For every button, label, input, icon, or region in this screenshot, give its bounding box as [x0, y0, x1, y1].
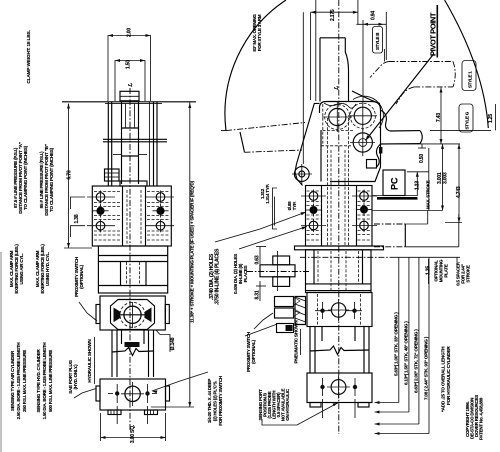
- dim 7.43: [440, 88, 442, 145]
- svg-text:(OPTIONAL): (OPTIONAL): [251, 339, 256, 363]
- 1.13 dim: [407, 171, 429, 173]
- svg-text:MAX. STROKE: MAX. STROKE: [426, 180, 431, 209]
- bolt hole TL: [96, 193, 105, 202]
- column walls right: [321, 186, 323, 247]
- svg-text:USING AIR CYL.: USING AIR CYL.: [19, 253, 24, 284]
- svg-text:Ø.148: Ø.148: [170, 337, 176, 350]
- stroke dim 2: [408, 257, 410, 412]
- style1 phantom bottom: [414, 86, 453, 88]
- thd holes right: [320, 385, 324, 389]
- svg-text:0.94: 0.94: [371, 11, 377, 20]
- arm closed top: [320, 37, 345, 39]
- head left slope: [297, 103, 320, 164]
- arm profile right waves: [381, 110, 391, 131]
- line y210.5: [372, 210, 443, 212]
- svg-text:SENSING TYPE HYD. CYLINDER: SENSING TYPE HYD. CYLINDER: [36, 348, 41, 412]
- svg-text:(OPTIONAL): (OPTIONAL): [79, 264, 84, 288]
- pivot hole A: [329, 108, 346, 125]
- dowel filled RL: [310, 206, 318, 214]
- svg-text:6.13*( 1.50" STK. 48° OPENING: 6.13*( 1.50" STK. 48° OPENING ): [403, 321, 408, 385]
- sensing port bracket leader: [262, 403, 338, 425]
- bottom block: [100, 379, 166, 410]
- bottom side tab L: [96, 386, 100, 401]
- svg-text:CLAMP WEIGHT: 18 LBS.: CLAMP WEIGHT: 18 LBS.: [26, 30, 32, 83]
- rod segment lines: [122, 127, 139, 129]
- stroke dim 3: [418, 257, 420, 424]
- side tab L: [96, 305, 100, 324]
- bolt hole BL: [96, 221, 105, 230]
- sae leader: [74, 389, 96, 399]
- svg-text:TO CLAMPING POINT (INCHES): TO CLAMPING POINT (INCHES): [23, 145, 28, 210]
- hatch left: [295, 297, 306, 322]
- prox leader: [79, 302, 97, 321]
- body bottom line y195.5: [372, 195, 417, 197]
- bottom side tab R: [166, 386, 170, 401]
- thd leader left: [152, 372, 208, 391]
- bolt hole BR: [156, 221, 165, 230]
- svg-text:PATENT No. 4,458,889: PATENT No. 4,458,889: [479, 397, 484, 440]
- arm closed right edge: [345, 38, 348, 102]
- open arm bottom edge: [240, 132, 245, 152]
- svg-text:SENSING TYPE AIR CYLINDER: SENSING TYPE AIR CYLINDER: [10, 350, 15, 411]
- pivot point circle: [353, 133, 372, 152]
- svg-text:7.08 ( 2.44" STK. 93° OPENING: 7.08 ( 2.44" STK. 93° OPENING ): [424, 336, 429, 400]
- svg-text:*ADD .25 TO OVERALL LENGTH: *ADD .25 TO OVERALL LENGTH: [441, 346, 446, 412]
- stroke dim 1: [398, 257, 400, 403]
- rod top cap: [120, 91, 139, 101]
- svg-text:ℒ: ℒ: [128, 83, 134, 87]
- centerline left cyl: [129, 88, 131, 430]
- inner step solid: [320, 130, 322, 182]
- dowel leader: [215, 212, 306, 242]
- bottom block right: [307, 373, 372, 403]
- svg-text:7.43: 7.43: [436, 113, 442, 122]
- style 1 box: [462, 61, 476, 91]
- svg-text:(HYD. ONLY.): (HYD. ONLY.): [73, 364, 78, 390]
- svg-text:STYLE G: STYLE G: [465, 111, 470, 129]
- heavy bar: [377, 197, 418, 200]
- pivot leader: [366, 54, 435, 141]
- bore walls: [122, 186, 124, 246]
- svg-text:TO CLAMPING POINT (INCHES): TO CLAMPING POINT (INCHES): [49, 147, 54, 212]
- svg-text:PC: PC: [390, 177, 400, 190]
- side tab R: [165, 305, 169, 324]
- dowel filled L: [96, 207, 104, 215]
- body top boss: [120, 181, 147, 186]
- max stroke dim: [428, 148, 430, 211]
- 0.50 dim: [418, 147, 426, 149]
- svg-text:1.50: 1.50: [126, 60, 132, 69]
- line y143.9: [383, 143, 460, 145]
- svg-text:1.50 DIA. BORE - 1.025 PROBE L: 1.50 DIA. BORE - 1.025 PROBE LENGTH: [42, 343, 47, 420]
- base plate: [295, 246, 384, 250]
- centerline right cyl: [338, 0, 340, 434]
- style1 phantom top: [389, 61, 453, 63]
- clevis bracket: [105, 169, 120, 181]
- thd hole R: [145, 391, 149, 395]
- body dashed lines: [307, 191, 372, 240]
- style G box: [459, 104, 473, 132]
- svg-text:PLATE: PLATE: [444, 264, 449, 277]
- PC box: [383, 170, 405, 196]
- switch head body: [100, 296, 165, 330]
- switch circle right: [331, 303, 345, 317]
- svg-text:FOR PROXIMITY SWITCH: FOR PROXIMITY SWITCH: [218, 376, 223, 425]
- svg-text:ON HYDRAULIC: ON HYDRAULIC: [285, 388, 290, 420]
- rod: [121, 102, 123, 184]
- switch octagon: [111, 300, 155, 330]
- svg-text:2.00: 2.00: [127, 28, 133, 37]
- plate outline: [404, 224, 406, 247]
- svg-text:ℒ: ℒ: [334, 86, 340, 90]
- neck: [111, 330, 113, 377]
- feet right: [310, 403, 321, 408]
- swing arc right: [445, 0, 489, 128]
- head block: [320, 102, 381, 182]
- center tick below: [116, 406, 118, 424]
- bolt hole TR: [156, 193, 165, 202]
- guide plate left: [107, 102, 109, 186]
- 3.001/3.003 dim: [442, 144, 444, 211]
- clevis centerline: [247, 271, 310, 273]
- svg-text:6.63*( 2.00" STK. 72° OPENING: 6.63*( 2.00" STK. 72° OPENING ): [413, 329, 418, 393]
- svg-text:0.50: 0.50: [419, 154, 425, 163]
- svg-text:2.50 DIA. BORE - 1.025 PROBE L: 2.50 DIA. BORE - 1.025 PROBE LENGTH: [16, 343, 21, 420]
- switch holes right: [320, 309, 324, 313]
- lower section: [98, 246, 167, 293]
- svg-text:250 P.S.I. MAX. LINE PRESSURE: 250 P.S.I. MAX. LINE PRESSURE: [22, 350, 27, 412]
- bolt leader: [239, 227, 307, 250]
- foot R: [145, 410, 158, 415]
- foot L: [108, 410, 121, 415]
- tube right: [309, 327, 311, 374]
- svg-text:STROKE: STROKE: [466, 265, 471, 283]
- swing arc 83deg: [225, 0, 286, 131]
- switch wedge R: [145, 308, 152, 323]
- dim line y130: [430, 129, 491, 131]
- svg-text:8.31: 8.31: [255, 290, 261, 299]
- body dashed thread lines: [94, 192, 170, 241]
- thd hole L: [115, 391, 119, 395]
- dim 3.00 SQ: [100, 413, 102, 441]
- port plug filled: [125, 342, 140, 347]
- svg-text:PNEUMATIC SHOWN: PNEUMATIC SHOWN: [294, 320, 299, 364]
- dowel filled R: [156, 207, 164, 215]
- connector y210-224: [427, 211, 429, 225]
- bolt BR: [360, 221, 369, 230]
- pivot hole A dashed: [325, 104, 350, 129]
- port circle right: [331, 380, 346, 395]
- stroke dim 4: [428, 257, 430, 434]
- clevis part: [260, 265, 295, 277]
- pivot hole B: [354, 107, 371, 124]
- switch head right: [307, 293, 372, 327]
- svg-text:FOR STYLE 3 ARM: FOR STYLE 3 ARM: [257, 14, 262, 51]
- svg-text:2.175: 2.175: [330, 9, 336, 21]
- svg-text:1.314 TYP.: 1.314 TYP.: [265, 184, 270, 203]
- port circle: [125, 386, 140, 401]
- top extension line: [62, 101, 196, 103]
- break zigzag: [112, 348, 154, 356]
- svg-text:HYDRAULIC SHOWN: HYDRAULIC SHOWN: [87, 339, 92, 383]
- pivot hole B dashed: [350, 103, 375, 128]
- 1.25 dim lower: [428, 259, 430, 284]
- break zigzag right: [310, 346, 369, 355]
- line y222.5 tick: [445, 222, 462, 224]
- dim 2.175: [311, 11, 358, 13]
- svg-text:1.25: 1.25: [426, 266, 432, 275]
- svg-text:1.25: 1.25: [488, 114, 494, 123]
- bolt TL: [309, 192, 318, 201]
- style B connector: [383, 49, 385, 62]
- head black mark: [379, 147, 382, 154]
- 4.743 dim: [458, 144, 460, 223]
- style1 phantom end cap: [453, 62, 455, 87]
- svg-text:FOR HYDRAULIC CYLINDER: FOR HYDRAULIC CYLINDER: [446, 346, 451, 405]
- dim 1.50 bracket: [115, 61, 145, 102]
- svg-text:5.63*( 1.00" STK. 33° OPENING: 5.63*( 1.00" STK. 33° OPENING ): [393, 312, 398, 376]
- dim 0.94: [356, 23, 386, 25]
- svg-text:4.743: 4.743: [456, 186, 462, 198]
- page edge artifact: [0, 252, 2, 452]
- svg-text:STYLE B: STYLE B: [375, 32, 380, 50]
- svg-text:3.00 SQ.: 3.00 SQ.: [130, 424, 136, 443]
- mounting body: [92, 186, 171, 246]
- svg-text:3.003: 3.003: [443, 172, 449, 184]
- svg-text:(2) HOLES (2) PL'C'S.: (2) HOLES (2) PL'C'S.: [213, 381, 218, 421]
- dowel filled RR: [360, 206, 368, 214]
- bore dashed lines: [327, 118, 329, 246]
- lug pivot inner: [299, 171, 305, 177]
- prox switch side view: [275, 297, 294, 307]
- lug pivot outer: [294, 167, 309, 182]
- style B box: [373, 27, 383, 54]
- port crosshair: [121, 393, 144, 395]
- svg-text:STYLE 1: STYLE 1: [468, 71, 473, 88]
- svg-text:6.73: 6.73: [67, 170, 73, 179]
- mid section: [306, 250, 372, 293]
- svg-text:PIVOT POINT: PIVOT POINT: [429, 12, 438, 56]
- switch center circle: [124, 306, 141, 323]
- svg-text:11.38* + STROKE + MOUNTING PLA: 11.38* + STROKE + MOUNTING PLATE (IF USE…: [190, 180, 195, 323]
- dim 0.63 / 8.31: [259, 247, 261, 265]
- svg-text:.3750 IN-LINE (4) PLACES: .3750 IN-LINE (4) PLACES: [215, 248, 221, 305]
- phantom plate line: [374, 223, 405, 225]
- dim 11.38 overall: [189, 102, 191, 407]
- svg-text:1.13: 1.13: [415, 181, 421, 190]
- ext lines top: [302, 12, 304, 164]
- dim 6.73: [68, 104, 70, 249]
- switch leader diag: [245, 325, 276, 337]
- guide plate right: [153, 102, 155, 186]
- svg-text:500 P.S.I. MAX. LINE PRESSURE: 500 P.S.I. MAX. LINE PRESSURE: [48, 350, 53, 412]
- svg-text:USING HYD. CYL.: USING HYD. CYL.: [45, 252, 50, 286]
- pivot boss arc: [353, 96, 383, 128]
- bolt BL: [309, 221, 318, 230]
- bolt TR: [360, 192, 369, 201]
- svg-text:1.38: 1.38: [74, 214, 80, 223]
- dim 2.00 bracket: [108, 36, 151, 102]
- mounting body right: [306, 186, 373, 247]
- open arm top edge: [221, 123, 305, 131]
- head notch: [367, 160, 377, 169]
- style1 diag: [370, 62, 389, 78]
- head top wave: [324, 103, 356, 108]
- switch wedge L: [114, 308, 121, 323]
- arm closed left edge: [319, 38, 321, 102]
- svg-text:0.63: 0.63: [255, 255, 261, 264]
- svg-text:PLACES: PLACES: [243, 265, 248, 282]
- svg-text:1/4-20 THD. X .44 DEEP: 1/4-20 THD. X .44 DEEP: [207, 379, 212, 424]
- plate bottom ext line: [300, 256, 390, 258]
- svg-text:TYP.: TYP.: [292, 202, 297, 210]
